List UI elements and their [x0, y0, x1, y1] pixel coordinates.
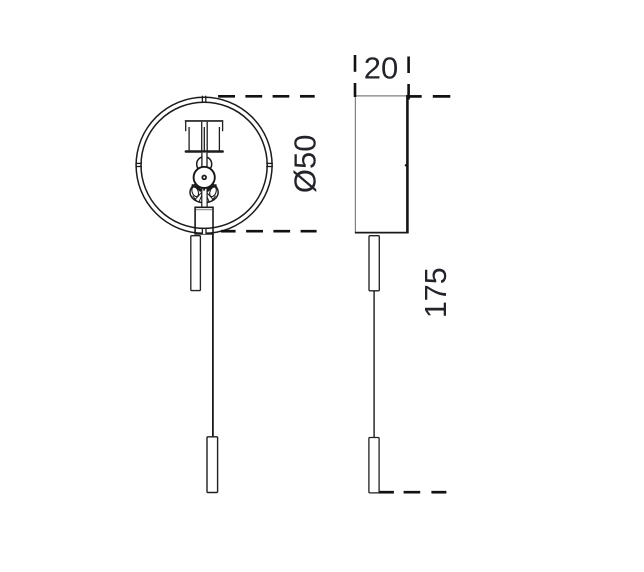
- svg-text:20: 20: [364, 50, 398, 85]
- svg-text:Ø50: Ø50: [287, 134, 322, 193]
- svg-text:175: 175: [419, 267, 453, 318]
